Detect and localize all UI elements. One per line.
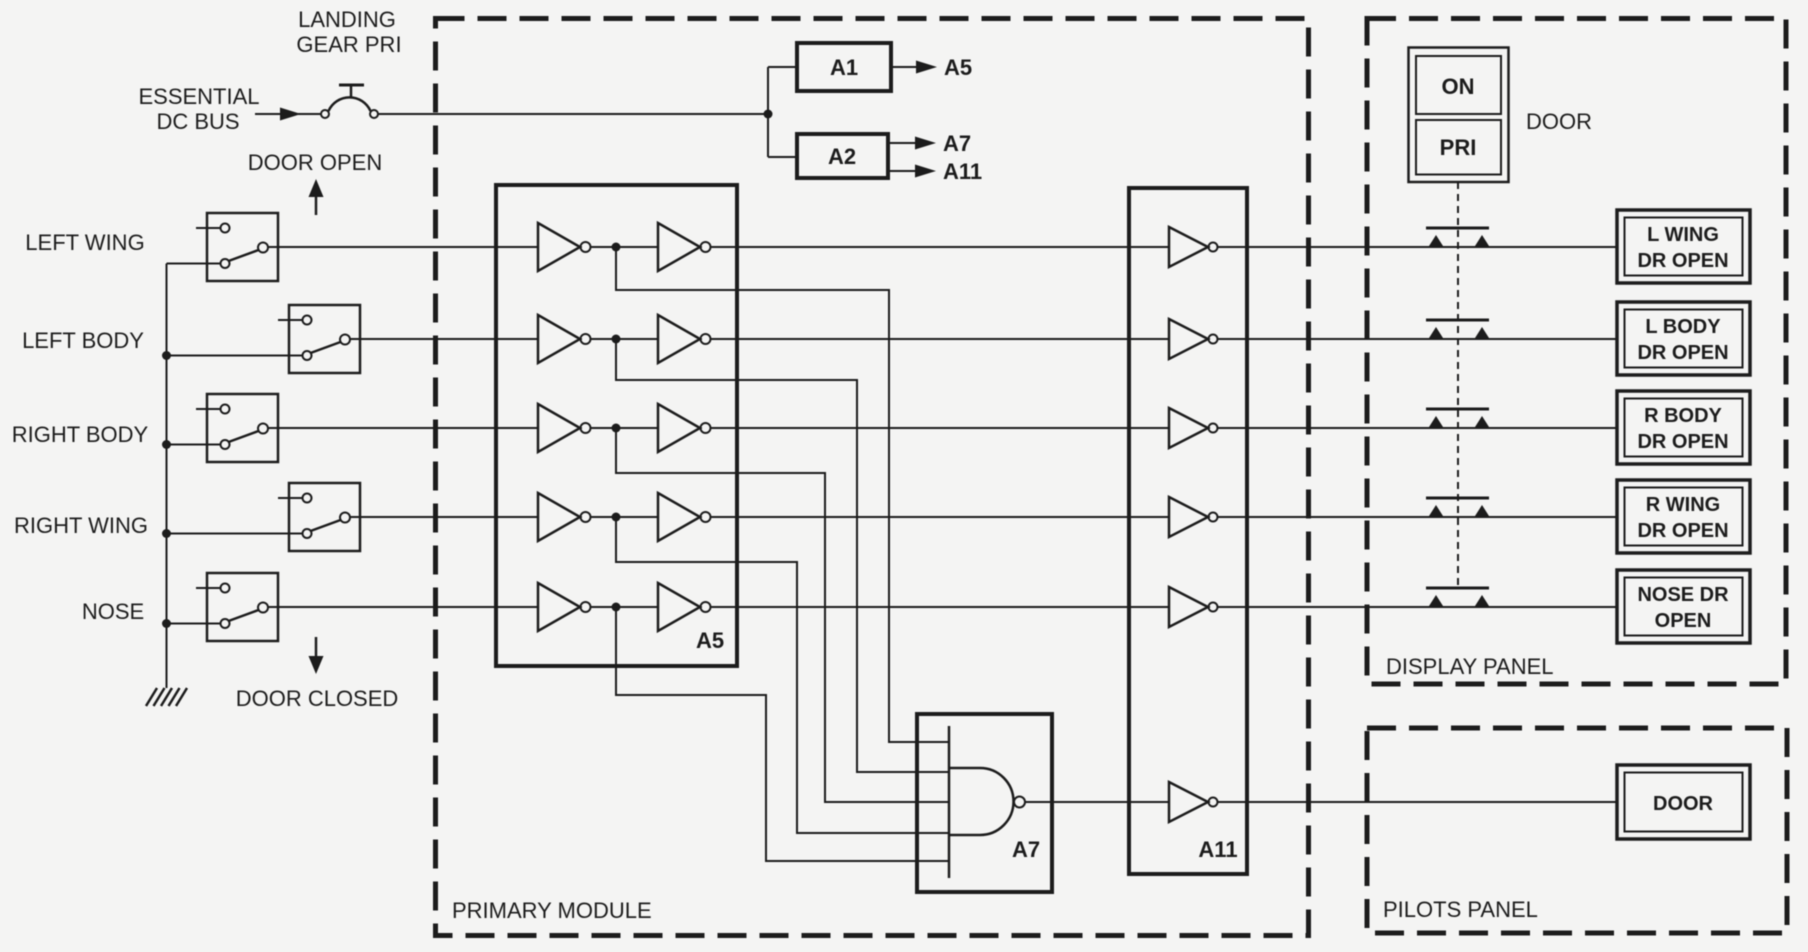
svg-text:OPEN: OPEN [1655,610,1712,632]
svg-text:DR OPEN: DR OPEN [1637,431,1728,453]
svg-text:A5: A5 [944,55,972,80]
svg-text:LEFT WING: LEFT WING [25,230,144,255]
svg-text:RIGHT BODY: RIGHT BODY [12,422,149,447]
svg-text:ON: ON [1442,74,1475,99]
svg-text:L BODY: L BODY [1645,316,1721,338]
svg-text:LANDING: LANDING [298,7,396,32]
svg-text:PILOTS PANEL: PILOTS PANEL [1383,897,1538,922]
svg-text:NOSE DR: NOSE DR [1637,584,1729,606]
svg-text:A2: A2 [828,144,856,169]
svg-text:DR OPEN: DR OPEN [1637,520,1728,542]
svg-text:A5: A5 [696,628,724,653]
svg-text:DOOR OPEN: DOOR OPEN [248,150,382,175]
svg-text:DR OPEN: DR OPEN [1637,342,1728,364]
svg-text:PRIMARY MODULE: PRIMARY MODULE [452,898,652,923]
svg-text:R BODY: R BODY [1644,405,1722,427]
svg-text:RIGHT WING: RIGHT WING [14,513,148,538]
svg-text:DR OPEN: DR OPEN [1637,250,1728,272]
svg-text:A1: A1 [830,55,858,80]
svg-text:A11: A11 [943,159,982,184]
svg-text:PRI: PRI [1440,135,1477,160]
svg-text:A11: A11 [1198,837,1237,862]
svg-text:NOSE: NOSE [82,599,144,624]
svg-text:A7: A7 [1012,837,1040,862]
svg-text:LEFT BODY: LEFT BODY [22,328,144,353]
svg-text:ESSENTIAL: ESSENTIAL [138,84,259,109]
svg-text:DOOR CLOSED: DOOR CLOSED [236,686,399,711]
svg-text:A7: A7 [943,131,971,156]
svg-text:GEAR PRI: GEAR PRI [296,32,401,57]
svg-text:DC BUS: DC BUS [156,109,239,134]
svg-text:R WING: R WING [1646,494,1720,516]
svg-text:DISPLAY PANEL: DISPLAY PANEL [1386,654,1554,679]
svg-text:L WING: L WING [1647,224,1719,246]
svg-text:DOOR: DOOR [1526,109,1592,134]
svg-text:DOOR: DOOR [1653,793,1714,815]
